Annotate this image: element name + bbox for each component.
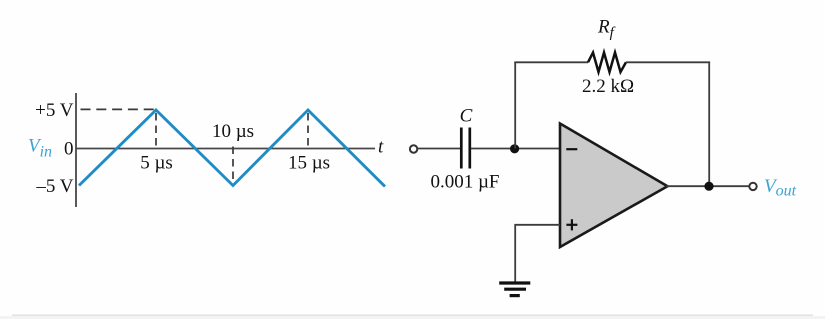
bottom band <box>0 316 825 319</box>
output wire <box>666 185 749 187</box>
ground <box>499 281 530 284</box>
svg-text:+5 V: +5 V <box>35 100 74 121</box>
svg-text:5 µs: 5 µs <box>140 153 173 174</box>
svg-text:15 µs: 15 µs <box>288 153 330 174</box>
svg-text:–5 V: –5 V <box>35 176 73 197</box>
feedback left vertical wire <box>514 62 516 148</box>
svg-text:10 µs: 10 µs <box>212 121 254 142</box>
feedback top wire left of resistor <box>514 61 588 63</box>
svg-text:C: C <box>460 106 473 127</box>
dashed drop at 5us <box>155 113 157 147</box>
triangle waveform Vin <box>79 110 385 187</box>
dashed drop at 10us <box>232 147 234 183</box>
y-axis <box>75 93 77 207</box>
op-amp U1 <box>560 124 668 248</box>
svg-text:0.001 µF: 0.001 µF <box>430 172 499 193</box>
capacitor C plates <box>460 128 463 169</box>
plus sign noninverting input <box>566 224 577 226</box>
wire capacitor to op-amp inverting input <box>471 148 560 150</box>
t-axis <box>76 148 375 150</box>
junction node on inverting input <box>510 144 519 153</box>
svg-text:t: t <box>378 137 384 158</box>
wire input to capacitor <box>417 148 460 150</box>
output terminal <box>749 183 756 190</box>
feedback right vertical wire down to output <box>708 62 710 186</box>
feedback top wire right of resistor <box>626 61 710 63</box>
bottom divider line <box>12 315 813 317</box>
noninverting input wire <box>515 225 560 283</box>
dashed drop at 15us <box>307 113 309 147</box>
resistor Rf zigzag <box>588 53 626 73</box>
svg-text:0: 0 <box>64 139 74 160</box>
minus sign inverting input <box>566 148 577 150</box>
input terminal <box>410 145 417 152</box>
svg-text:2.2 kΩ: 2.2 kΩ <box>582 76 634 97</box>
output junction node <box>704 182 713 191</box>
dashed +5V level line <box>81 108 157 110</box>
